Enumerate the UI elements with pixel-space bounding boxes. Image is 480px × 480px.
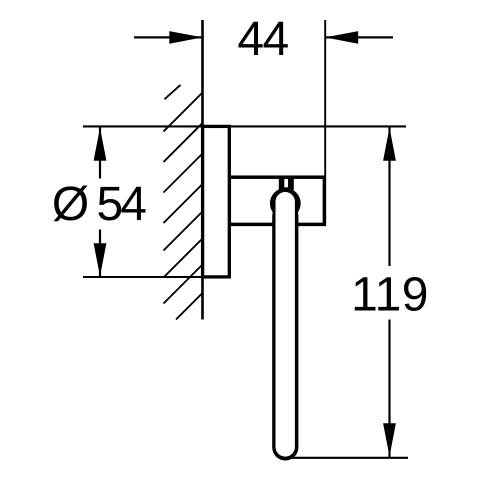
svg-text:119: 119 xyxy=(351,268,429,321)
svg-text:Ø 54: Ø 54 xyxy=(52,178,146,231)
svg-text:44: 44 xyxy=(237,13,288,66)
